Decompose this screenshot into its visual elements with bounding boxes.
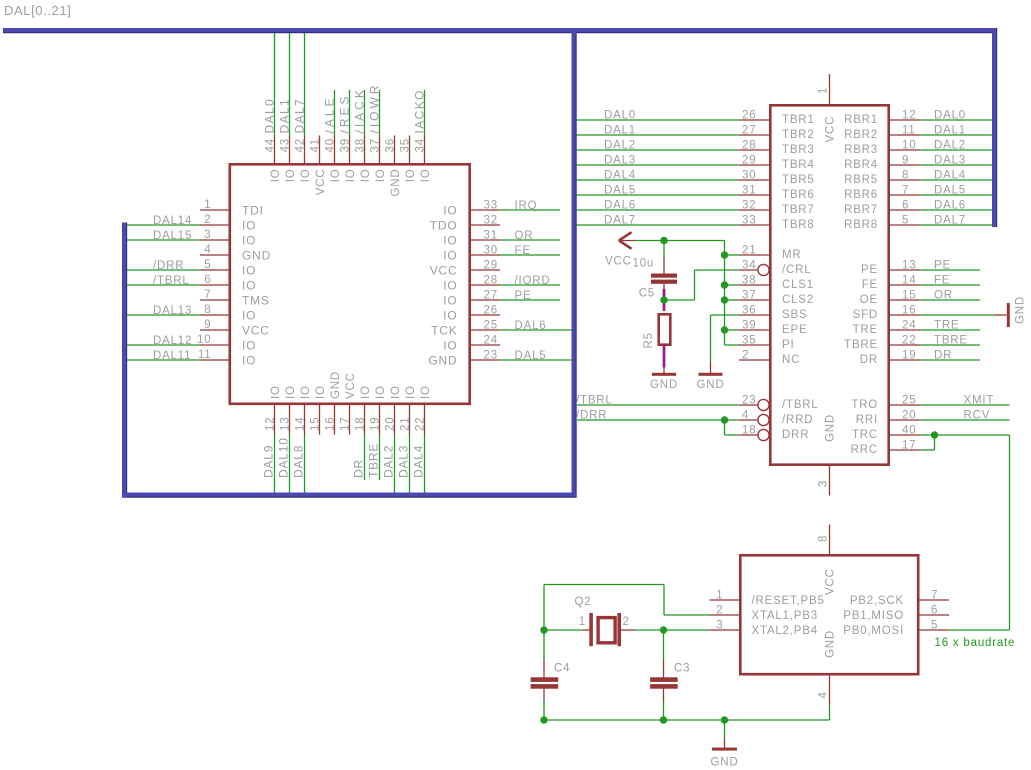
svg-text:IO: IO	[300, 385, 312, 399]
wire net /TBRL from bus to U1 pin 6	[127, 284, 200, 286]
wire net DAL8 from U1 pin 14 to bus	[304, 435, 306, 493]
svg-text:RBR6: RBR6	[844, 189, 878, 201]
svg-text:/DRR: /DRR	[576, 410, 607, 422]
U1 pin 34 (IO) top stub	[424, 136, 426, 165]
wire XTAL1 to U3 pin 2	[664, 614, 710, 616]
wire net /DRR	[577, 419, 739, 421]
wire net OR	[921, 299, 981, 301]
U1 pin 12 (IO) bottom stub	[274, 404, 276, 435]
svg-text:44: 44	[265, 138, 277, 152]
svg-text:9: 9	[902, 155, 909, 167]
wire net DAL2 from bus to U2 pin 28	[577, 149, 740, 151]
junction VCC at CLS1	[721, 281, 728, 288]
svg-text:PE: PE	[861, 264, 878, 276]
wire 16x baudrate right vertical	[1009, 435, 1011, 630]
U1 pin 26 (IO) right stub	[471, 314, 501, 316]
junction C5/R5//CRL node	[660, 296, 667, 303]
svg-text:GND: GND	[390, 169, 402, 197]
svg-text:31: 31	[742, 185, 756, 197]
crystal Q2 right electrode	[617, 613, 621, 646]
svg-text:IO: IO	[285, 385, 297, 399]
U2 pin 17 (RRC) right stub	[888, 449, 921, 451]
wire net TRE	[921, 329, 981, 331]
svg-text:DAL14: DAL14	[153, 215, 192, 227]
U2 pin 3 (GND) bottom stub	[829, 465, 831, 496]
wire SBS to GND vertical	[710, 315, 712, 363]
U2 pin 32 (TBR7) left stub	[739, 209, 771, 211]
junction ground rail at GND tap	[721, 716, 728, 723]
svg-text:28: 28	[484, 275, 498, 287]
svg-text:IO: IO	[360, 169, 372, 183]
svg-text:35: 35	[742, 335, 756, 347]
svg-text:DAL2: DAL2	[382, 445, 396, 478]
U2 pin 29 (TBR4) left stub	[739, 164, 771, 166]
svg-text:RBR4: RBR4	[844, 159, 878, 171]
U1 pin 43 (IO) top stub	[289, 136, 291, 165]
svg-text:/DRR: /DRR	[153, 260, 184, 272]
capacitor C4 top pin	[543, 660, 545, 679]
junction ground rail left	[540, 716, 547, 723]
IC U2 UART body outline	[770, 105, 888, 464]
wire VCC branch to U2 pin 38	[725, 284, 740, 286]
svg-text:RBR7: RBR7	[844, 204, 878, 216]
svg-text:24: 24	[902, 320, 916, 332]
ground symbol bar under R5	[652, 373, 676, 376]
svg-text:/RESET,PB5: /RESET,PB5	[752, 595, 825, 607]
wire stub net /IOWR at U1 pin 37	[379, 90, 381, 136]
svg-text:SFD: SFD	[853, 309, 878, 321]
svg-text:OE: OE	[860, 294, 878, 306]
svg-text:10: 10	[902, 140, 916, 152]
svg-text:IO: IO	[375, 385, 387, 399]
U2 pin 39 (EPE) left stub	[739, 329, 771, 331]
svg-text:IO: IO	[242, 219, 256, 233]
svg-text:VCC: VCC	[345, 372, 357, 399]
svg-text:IO: IO	[285, 169, 297, 183]
svg-text:DAL12: DAL12	[153, 335, 192, 347]
svg-text:23: 23	[742, 395, 756, 407]
svg-text:DAL13: DAL13	[153, 305, 192, 317]
svg-text:26: 26	[484, 305, 498, 317]
wire net DAL4 from U1 pin 22 to bus	[424, 435, 426, 493]
svg-text:TDI: TDI	[242, 204, 264, 218]
wire net /CRL horizontal from node	[664, 299, 695, 301]
svg-text:DAL5: DAL5	[515, 350, 547, 362]
U2 pin 21 (MR) left stub	[739, 254, 771, 256]
U1 pin 10 (IO) left stub	[200, 344, 229, 346]
svg-text:29: 29	[484, 260, 498, 272]
svg-text:IO: IO	[443, 249, 457, 263]
svg-text:2: 2	[623, 616, 630, 628]
U2 pin 37 (CLS2) left stub	[739, 299, 771, 301]
wire net DAL5 from U1 pin 23	[500, 359, 572, 361]
svg-text:25: 25	[484, 320, 498, 332]
wire net 16x baudrate from TRC	[921, 434, 1010, 436]
capacitor C3 plates	[650, 677, 678, 682]
U2 pin 30 (TBR5) left stub	[739, 179, 771, 181]
svg-text:TCK: TCK	[431, 324, 457, 338]
U1 pin 29 (VCC) right stub	[471, 269, 501, 271]
svg-text:4: 4	[742, 410, 749, 422]
ground symbol lead below rail	[724, 738, 726, 748]
svg-text:29: 29	[742, 155, 756, 167]
svg-text:/ALE: /ALE	[323, 95, 337, 133]
svg-text:4: 4	[818, 691, 830, 698]
svg-text:TBR2: TBR2	[782, 129, 815, 141]
U3 pin 7 (PB2,SCK) right stub	[917, 599, 949, 601]
svg-text:20: 20	[902, 410, 916, 422]
U2 pin 40 (TRC) right stub	[888, 434, 921, 436]
U2 pin 19 (DR) right stub	[888, 359, 921, 361]
U2 pin 38 (CLS1) left stub	[739, 284, 771, 286]
svg-text:23: 23	[484, 350, 498, 362]
svg-text:DAL11: DAL11	[153, 350, 191, 362]
svg-text:6: 6	[931, 605, 938, 617]
svg-text:DAL9: DAL9	[262, 445, 276, 478]
svg-text:DAL1: DAL1	[934, 125, 966, 137]
U1 pin 13 (IO) bottom stub	[289, 404, 291, 435]
wire net DAL15 from bus to U1 pin 3	[127, 239, 200, 241]
svg-text:IO: IO	[405, 385, 417, 399]
svg-text:DAL6: DAL6	[604, 200, 636, 212]
svg-text:3: 3	[204, 229, 211, 241]
wire RRC vertical to TRC junction	[934, 435, 936, 450]
svg-text:IO: IO	[270, 169, 282, 183]
wire C3 to ground rail	[663, 702, 665, 721]
U1 pin 5 (IO) left stub	[200, 269, 229, 271]
svg-text:IO: IO	[242, 309, 256, 323]
U3 pin 5 (PB0,MOSI) right stub	[917, 629, 949, 631]
svg-text:RBR3: RBR3	[844, 144, 878, 156]
svg-text:25: 25	[902, 395, 916, 407]
U1 pin 25 (TCK) right stub	[471, 329, 501, 331]
svg-text:2: 2	[742, 350, 749, 362]
svg-text:36: 36	[742, 305, 756, 317]
svg-text:/IORD: /IORD	[515, 275, 551, 287]
svg-text:EPE: EPE	[782, 324, 807, 336]
svg-text:8: 8	[204, 304, 211, 316]
svg-text:2: 2	[204, 214, 211, 226]
svg-text:39: 39	[340, 138, 352, 152]
wire net FE	[921, 284, 981, 286]
wire net DR from U1 pin 18	[364, 435, 366, 481]
U3 pin 3 (XTAL2,PB4) left stub	[710, 629, 742, 631]
svg-text:DAL3: DAL3	[397, 445, 411, 478]
svg-text:TBRE: TBRE	[367, 443, 381, 478]
svg-text:9: 9	[204, 319, 211, 331]
svg-text:4: 4	[204, 244, 211, 256]
svg-text:/CRL: /CRL	[782, 264, 811, 276]
U1 pin 23 (GND) right stub	[471, 359, 501, 361]
U3 pin 8 (VCC) top stub	[829, 525, 831, 557]
U1 pin 42 (IO) top stub	[304, 136, 306, 165]
svg-text:DAL0: DAL0	[934, 110, 966, 122]
svg-text:5: 5	[931, 620, 938, 632]
U1 pin 36 (GND) top stub	[394, 136, 396, 165]
U2 pin 18 (DRR) left stub	[739, 434, 758, 436]
svg-text:DAL0: DAL0	[263, 98, 277, 134]
svg-text:R5: R5	[643, 332, 655, 348]
wire XTAL1 detour top	[544, 584, 664, 586]
svg-text:6: 6	[204, 274, 211, 286]
wire net DR	[921, 359, 981, 361]
svg-text:DAL1: DAL1	[278, 98, 292, 134]
svg-text:PB1,MISO: PB1,MISO	[843, 610, 904, 622]
bus DAL[0..21] right vertical segment	[992, 28, 997, 227]
wire stub net IACKO at U1 pin 34	[424, 90, 426, 136]
wire XTAL1 detour vertical	[663, 585, 665, 616]
wire RRC to junction	[921, 449, 935, 451]
wire net /CRL vertical	[694, 270, 696, 300]
svg-text:37: 37	[370, 138, 382, 152]
svg-text:38: 38	[355, 138, 367, 152]
U1 pin 16 (GND) bottom stub	[334, 404, 336, 435]
svg-text:DAL4: DAL4	[604, 170, 636, 182]
svg-text:7: 7	[931, 590, 938, 602]
svg-text:PE: PE	[515, 290, 532, 302]
svg-text:16: 16	[325, 417, 337, 431]
U1 pin 9 (VCC) left stub	[200, 329, 229, 331]
capacitor C5 top pin	[663, 256, 665, 274]
U2 pin 33 (TBR8) left stub	[739, 224, 771, 226]
wire SBS to GND horizontal	[711, 314, 740, 316]
svg-text:TBRE: TBRE	[934, 335, 968, 347]
wire net DAL2 from U2 pin 10 to bus	[921, 149, 993, 151]
svg-text:18: 18	[742, 425, 756, 437]
svg-text:TBRE: TBRE	[844, 339, 878, 351]
svg-text:DR: DR	[860, 354, 878, 366]
bus DAL[0..21] bottom horizontal segment	[122, 493, 577, 498]
svg-text:GND: GND	[428, 354, 457, 368]
U3 pin 6 (PB1,MISO) right stub	[917, 614, 949, 616]
svg-text:TBR7: TBR7	[782, 204, 815, 216]
svg-text:DAL7: DAL7	[293, 98, 307, 134]
U1 pin 21 (IO) bottom stub	[409, 404, 411, 435]
junction VCC at C5	[660, 237, 667, 244]
svg-text:35: 35	[400, 138, 412, 152]
bus DAL[0..21] middle vertical segment	[572, 28, 577, 498]
wire ground rail horizontal	[544, 719, 830, 721]
U1 pin 19 (IO) bottom stub	[379, 404, 381, 435]
crystal Q2 body	[598, 618, 615, 643]
U1 pin 18 (IO) bottom stub	[364, 404, 366, 435]
svg-text:IO: IO	[270, 385, 282, 399]
svg-text:DAL0: DAL0	[604, 110, 636, 122]
wire net DAL3 from U2 pin 9 to bus	[921, 164, 993, 166]
wire net PE from U1 pin 27	[500, 299, 560, 301]
svg-text:16: 16	[902, 305, 916, 317]
U1 pin 40 (IO) top stub	[334, 136, 336, 165]
svg-text:DAL4: DAL4	[412, 445, 426, 478]
wire net DAL3 from U1 pin 21 to bus	[409, 435, 411, 493]
svg-text:24: 24	[484, 335, 498, 347]
capacitor C5 bottom pin	[663, 284, 665, 291]
svg-text:11: 11	[902, 125, 916, 137]
svg-text:37: 37	[742, 290, 756, 302]
svg-text:C5: C5	[639, 288, 655, 300]
svg-text:CLS2: CLS2	[782, 294, 814, 306]
ground symbol bar at SBS	[699, 373, 723, 376]
U2 pin 6 (RBR7) right stub	[888, 209, 921, 211]
svg-text:IO: IO	[420, 169, 432, 183]
U1 pin 22 (IO) bottom stub	[424, 404, 426, 435]
svg-text:DAL3: DAL3	[934, 155, 966, 167]
svg-text:DAL4: DAL4	[934, 170, 966, 182]
wire net TBRE from U1 pin 19	[379, 435, 381, 481]
U2 pin 18 inversion bubble	[758, 429, 769, 440]
svg-text:DAL[0..21]: DAL[0..21]	[4, 3, 71, 18]
svg-text:30: 30	[484, 245, 498, 257]
svg-text:3: 3	[716, 620, 723, 632]
wire VCC horizontal	[635, 240, 725, 242]
U2 pin 15 (OE) right stub	[888, 299, 921, 301]
svg-text:/TBRL: /TBRL	[782, 399, 819, 411]
U2 pin 22 (TBRE) right stub	[888, 344, 921, 346]
svg-text:FE: FE	[515, 245, 531, 257]
U2 pin 27 (TBR2) left stub	[739, 134, 771, 136]
svg-text:17: 17	[902, 440, 916, 452]
crystal Q2 left electrode	[589, 613, 593, 646]
svg-text:VCC: VCC	[605, 256, 632, 268]
svg-text:7: 7	[902, 185, 909, 197]
wire net DAL13 from bus to U1 pin 8	[127, 314, 200, 316]
wire net RCV	[921, 419, 1010, 421]
wire net /IORD from U1 pin 28	[500, 284, 560, 286]
wire net DAL0 from bus to U1 pin 44	[274, 33, 276, 136]
U1 pin 1 (TDI) left stub	[200, 209, 229, 211]
svg-text:21: 21	[742, 245, 756, 257]
svg-text:27: 27	[742, 125, 756, 137]
svg-text:19: 19	[370, 417, 382, 431]
svg-text:GND: GND	[711, 757, 739, 769]
svg-text:TRE: TRE	[934, 320, 959, 332]
svg-text:33: 33	[484, 200, 498, 212]
svg-text:34: 34	[742, 260, 756, 272]
svg-text:DAL5: DAL5	[604, 185, 636, 197]
svg-text:40: 40	[325, 138, 337, 152]
svg-text:DR: DR	[352, 459, 366, 478]
U1 pin 11 (IO) left stub	[200, 359, 229, 361]
svg-text:TRC: TRC	[852, 429, 878, 441]
wire net DAL10 from U1 pin 13 to bus	[289, 435, 291, 493]
wire stub net /RES at U1 pin 39	[349, 90, 351, 136]
wire net DAL0 from bus to U2 pin 26	[577, 119, 740, 121]
svg-text:21: 21	[400, 417, 412, 431]
wire net DAL3 from bus to U2 pin 29	[577, 164, 740, 166]
svg-text:19: 19	[902, 350, 916, 362]
svg-text:7: 7	[204, 289, 211, 301]
svg-text:IO: IO	[443, 204, 457, 218]
svg-text:NC: NC	[782, 354, 800, 366]
wire net DAL7 from U2 pin 5 to bus	[921, 224, 993, 226]
svg-text:XTAL1,PB3: XTAL1,PB3	[752, 610, 818, 622]
svg-text:DAL6: DAL6	[515, 320, 547, 332]
U1 pin 17 (VCC) bottom stub	[349, 404, 351, 435]
junction VCC at EPE	[721, 326, 728, 333]
capacitor C3 bottom pin	[663, 689, 665, 703]
svg-text:IO: IO	[242, 339, 256, 353]
svg-text:DAL2: DAL2	[934, 140, 966, 152]
crystal Q2 pin 2 lead	[621, 629, 635, 631]
wire left node to C4	[543, 630, 545, 660]
svg-text:C3: C3	[674, 663, 690, 675]
svg-text:RBR1: RBR1	[844, 114, 878, 126]
svg-text:XTAL2,PB4: XTAL2,PB4	[752, 625, 818, 637]
svg-text:18: 18	[355, 417, 367, 431]
svg-text:RRC: RRC	[851, 444, 878, 456]
ground symbol lead under R5	[663, 367, 665, 373]
wire U3 pin 4 to ground rail	[829, 705, 831, 720]
svg-text:42: 42	[295, 138, 307, 152]
svg-text:DAL7: DAL7	[934, 215, 966, 227]
U1 pin 37 (IO) top stub	[379, 136, 381, 165]
svg-text:6: 6	[902, 200, 909, 212]
wire net DAL4 from U2 pin 8 to bus	[921, 179, 993, 181]
svg-text:33: 33	[742, 215, 756, 227]
svg-text:GND: GND	[825, 630, 837, 658]
svg-text:RRI: RRI	[856, 414, 878, 426]
junction crystal left node	[540, 626, 547, 633]
junction TRC/RRC	[931, 431, 938, 438]
supply symbol VCC arrow	[619, 232, 632, 240]
svg-text:XMIT: XMIT	[964, 395, 995, 407]
U2 pin 10 (RBR3) right stub	[888, 149, 921, 151]
svg-text:IO: IO	[300, 169, 312, 183]
svg-text:TDO: TDO	[430, 219, 458, 233]
svg-text:IACKO: IACKO	[413, 89, 427, 133]
wire net DAL5 from U2 pin 7 to bus	[921, 194, 993, 196]
wire net DAL12 from bus to U1 pin 10	[127, 344, 200, 346]
svg-text:TBR6: TBR6	[782, 189, 815, 201]
svg-text:SBS: SBS	[782, 309, 807, 321]
wire stub net /ALE at U1 pin 40	[334, 90, 336, 136]
U2 pin 12 (RBR1) right stub	[888, 119, 921, 121]
svg-text:8: 8	[818, 535, 830, 542]
svg-text:IO: IO	[443, 279, 457, 293]
U2 pin 8 (RBR5) right stub	[888, 179, 921, 181]
svg-text:RBR2: RBR2	[844, 129, 878, 141]
svg-text:RCV: RCV	[964, 410, 991, 422]
bus DAL[0..21] top horizontal segment	[3, 28, 997, 33]
U1 pin 20 (IO) bottom stub	[394, 404, 396, 435]
svg-text:DAL3: DAL3	[604, 155, 636, 167]
wire net DAL6 from bus to U2 pin 32	[577, 209, 740, 211]
U2 pin 14 (FE) right stub	[888, 284, 921, 286]
crystal Q2 pin 1 lead	[583, 629, 590, 631]
svg-text:OR: OR	[934, 290, 953, 302]
svg-text:DAL7: DAL7	[604, 215, 636, 227]
svg-text:8: 8	[902, 170, 909, 182]
junction crystal right node	[660, 626, 667, 633]
svg-text:VCC: VCC	[315, 169, 327, 196]
wire SFD to GND	[921, 314, 995, 316]
svg-text:DAL15: DAL15	[153, 230, 192, 242]
U2 pin 28 (TBR3) left stub	[739, 149, 771, 151]
svg-text:RBR5: RBR5	[844, 174, 878, 186]
svg-text:IO: IO	[375, 169, 387, 183]
U2 pin 7 (RBR6) right stub	[888, 194, 921, 196]
U1 pin 31 (IO) right stub	[471, 239, 501, 241]
svg-text:/IOWR: /IOWR	[368, 83, 382, 134]
wire net DAL11 from bus to U1 pin 11	[127, 359, 200, 361]
svg-text:13: 13	[902, 260, 916, 272]
U2 pin 2 (NC) left stub	[739, 359, 771, 361]
U2 pin 1 (VCC) top stub	[829, 74, 831, 105]
svg-text:C4: C4	[554, 663, 570, 675]
svg-text:GND: GND	[825, 414, 837, 442]
svg-text:FE: FE	[934, 275, 950, 287]
wire VCC branch to U2 pin 21	[725, 254, 740, 256]
